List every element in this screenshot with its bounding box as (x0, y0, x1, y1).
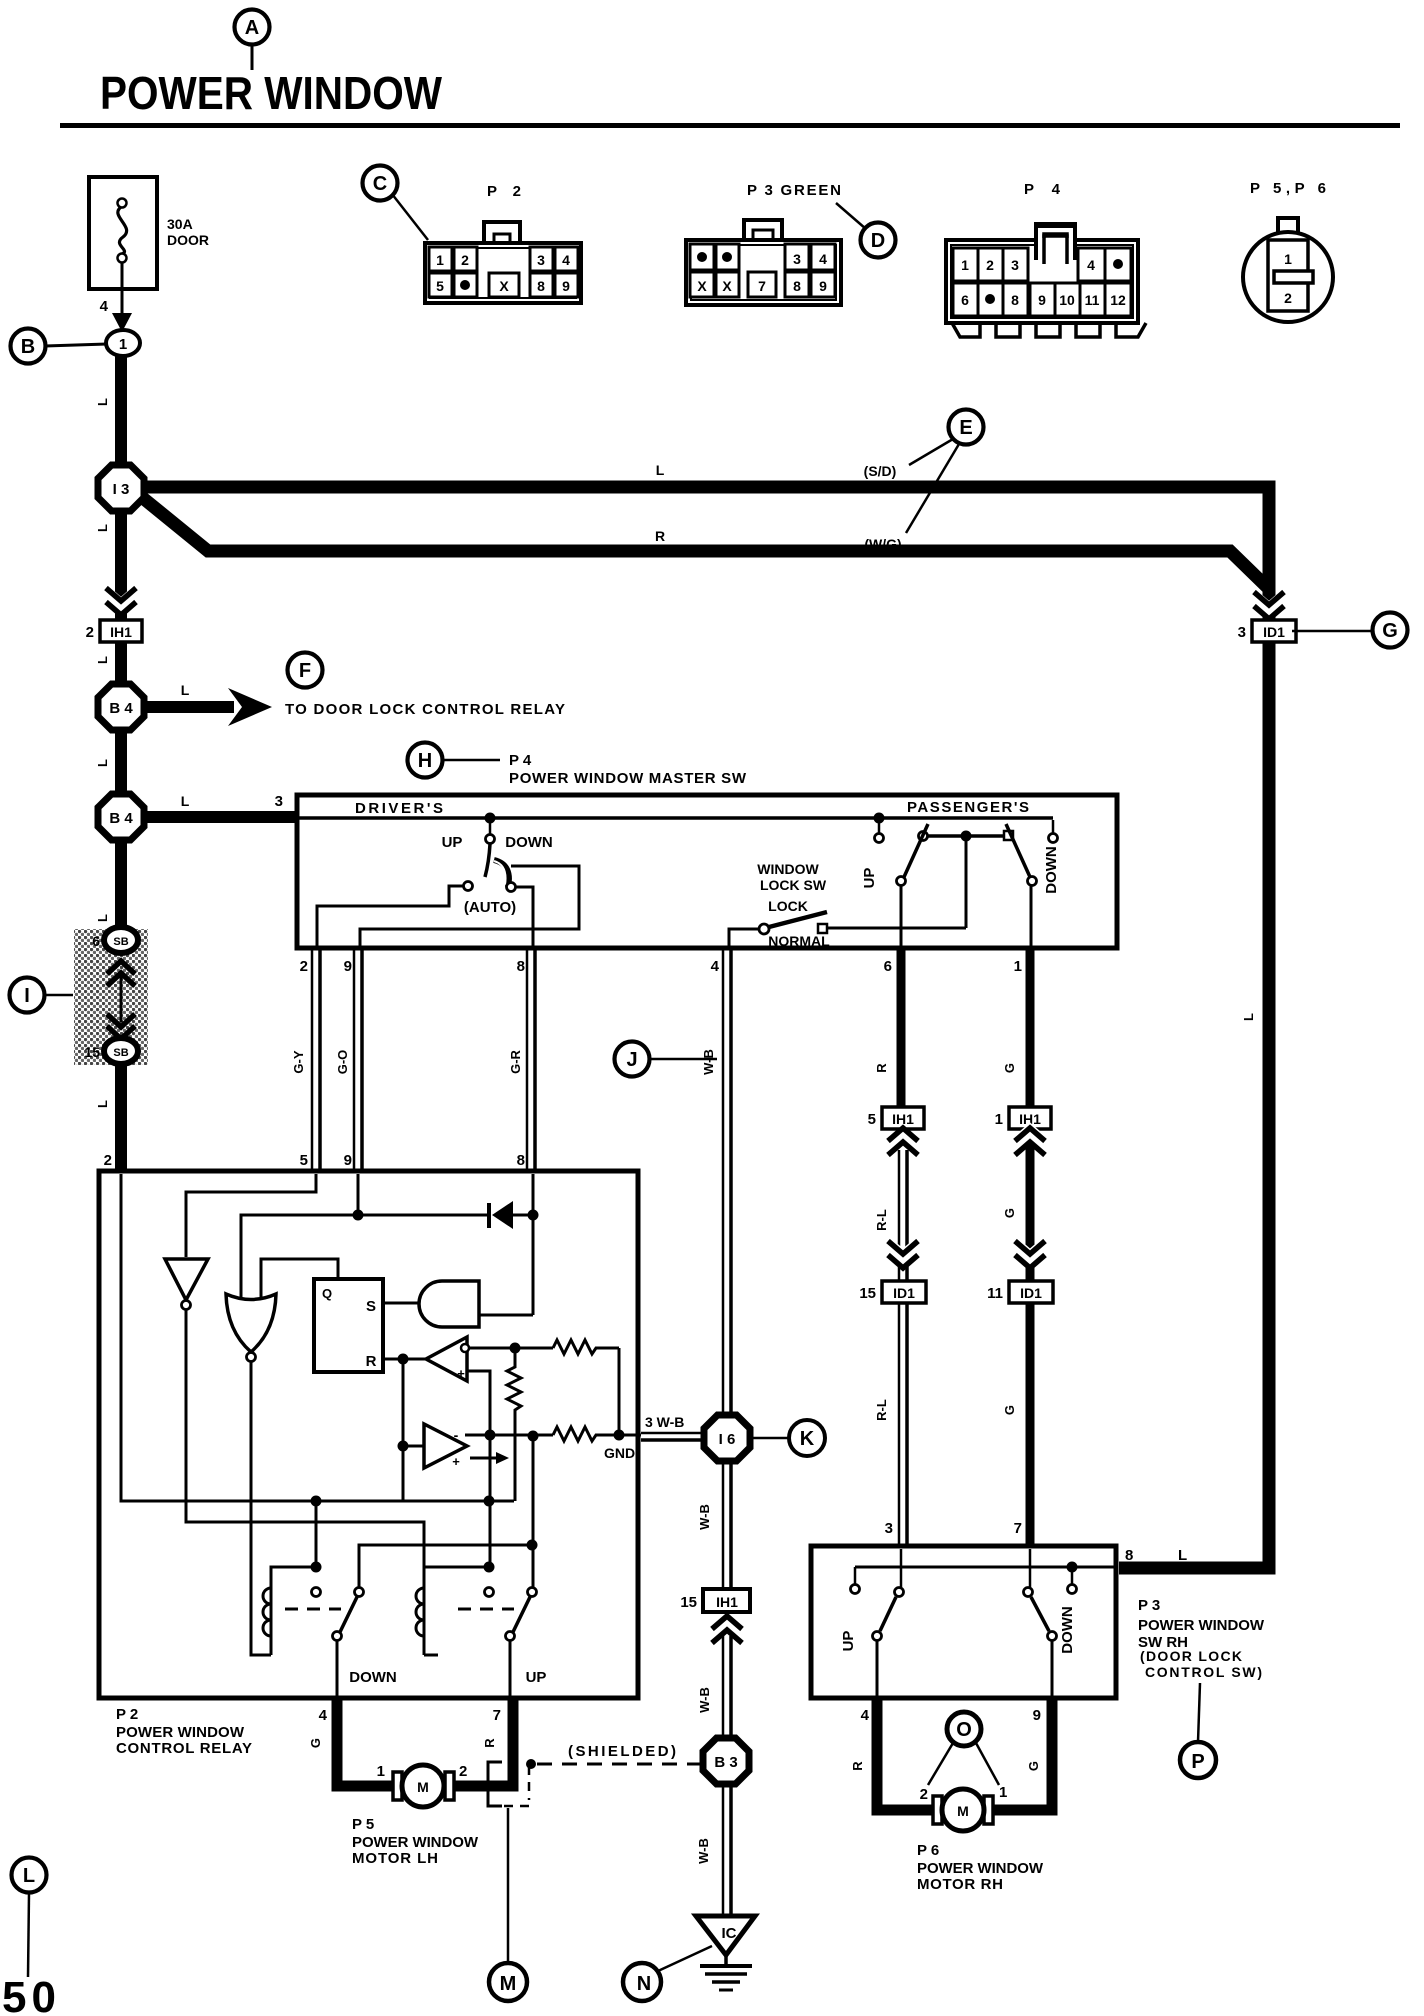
svg-text:12: 12 (1110, 292, 1126, 308)
connector P5 P6 (1243, 180, 1333, 322)
node P callout circle (1180, 1683, 1216, 1778)
node B callout circle (11, 329, 108, 364)
svg-text:L: L (95, 1100, 110, 1108)
svg-text:DOOR: DOOR (167, 232, 209, 248)
svg-text:L: L (95, 656, 110, 664)
svg-text:R: R (850, 1761, 865, 1771)
relay pin labels top (104, 1152, 525, 1169)
connector 3 ID1 on right wire (1238, 620, 1296, 642)
junction B 3 octagon (703, 1738, 749, 1784)
RH switch label (1138, 1597, 1265, 1680)
svg-text:G: G (308, 1738, 323, 1748)
svg-text:4: 4 (100, 298, 109, 315)
power window control relay box (99, 1171, 638, 1698)
svg-text:J: J (626, 1049, 637, 1071)
svg-text:1: 1 (1014, 958, 1022, 975)
wire FF S to AND gate (383, 1302, 430, 1305)
svg-text:IH1: IH1 (716, 1594, 738, 1610)
chevron up below 1 IH1 (1002, 1128, 1045, 1218)
connector 5 IH1 (868, 1107, 924, 1129)
RH switch internal rail (851, 1562, 1115, 1594)
svg-text:1: 1 (436, 252, 444, 268)
svg-text:1: 1 (961, 257, 969, 273)
fuse 30A DOOR (89, 177, 209, 289)
svg-text:7: 7 (493, 1707, 501, 1724)
svg-text:W-B: W-B (696, 1838, 711, 1864)
svg-text:K: K (800, 1428, 815, 1450)
chevron arrow down on right L wire (1254, 592, 1284, 619)
svg-text:POWER WINDOW: POWER WINDOW (100, 67, 443, 119)
svg-text:3: 3 (1238, 624, 1246, 641)
svg-text:5: 5 (300, 1152, 308, 1169)
wire RH pin7 stub to DOWN contact (1029, 1549, 1032, 1587)
node L callout circle page ref (12, 1858, 47, 1978)
svg-text:L: L (1178, 1547, 1187, 1564)
wire color tick L labels on left wire (95, 398, 110, 1108)
svg-text:R: R (874, 1063, 889, 1073)
svg-text:M: M (417, 1779, 429, 1795)
AND gate (419, 1281, 479, 1327)
svg-text:DOWN: DOWN (1043, 846, 1060, 894)
svg-text:IH1: IH1 (110, 624, 132, 640)
svg-text:8: 8 (1125, 1547, 1133, 1564)
svg-text:I: I (24, 985, 30, 1007)
svg-text:L: L (95, 914, 110, 922)
svg-text:(S/D): (S/D) (864, 463, 897, 479)
svg-text:(AUTO): (AUTO) (464, 899, 516, 916)
svg-text:TO DOOR LOCK CONTROL RELAY: TO DOOR LOCK CONTROL RELAY (285, 701, 565, 718)
NOR gate (226, 1294, 276, 1362)
svg-text:1: 1 (377, 1763, 385, 1780)
svg-text:X: X (722, 278, 732, 294)
SB junction block shaded (74, 927, 148, 1065)
wire passenger center to lock switch (965, 841, 968, 928)
wire relay pin8 vertical (532, 1174, 535, 1315)
power window master switch box (297, 795, 1117, 948)
svg-text:L: L (181, 793, 190, 809)
svg-text:G: G (1002, 1405, 1017, 1415)
wire R pin6 to 5 IH1 (874, 950, 901, 1107)
svg-text:3: 3 (1011, 257, 1019, 273)
relay lever 1 (333, 1588, 364, 1641)
relay coil 1 (263, 1567, 311, 1655)
svg-text:8: 8 (517, 1152, 525, 1169)
wire fuse to node 1 with arrow (100, 263, 132, 332)
node J callout circle (615, 1042, 718, 1077)
wire driver UP contact to pin 2 (317, 886, 463, 946)
wire G pin1 to 1 IH1 (1002, 950, 1030, 1107)
window lock switch (729, 861, 966, 949)
svg-text:H: H (418, 750, 432, 772)
wire RH levers to pins (877, 1641, 1052, 1698)
svg-text:CONTROL RELAY: CONTROL RELAY (116, 1740, 252, 1757)
svg-text:P 4: P 4 (1024, 181, 1061, 198)
svg-text:N: N (637, 1973, 651, 1995)
connector 15 ID1 (859, 1281, 926, 1303)
svg-text:L: L (23, 1865, 35, 1887)
node E callout circle (906, 410, 984, 534)
connector 15 IH1 (680, 1589, 750, 1612)
relay pin 4 label (308, 1707, 328, 1748)
svg-text:UP: UP (526, 1669, 547, 1686)
svg-text:P 5: P 5 (352, 1816, 374, 1833)
relay lever 2 (506, 1588, 537, 1641)
svg-text:DOWN: DOWN (505, 834, 553, 851)
svg-text:9: 9 (819, 278, 827, 294)
svg-text:MOTOR LH: MOTOR LH (352, 1850, 438, 1867)
svg-text:W-B: W-B (697, 1687, 712, 1713)
svg-text:2: 2 (300, 958, 308, 975)
svg-text:UP: UP (442, 834, 463, 851)
svg-text:I 6: I 6 (719, 1431, 736, 1448)
svg-text:P 4: P 4 (509, 752, 532, 769)
wire lever1 to pin 4 (336, 1641, 339, 1698)
svg-text:7: 7 (758, 278, 766, 294)
relay pin 7 label (482, 1707, 501, 1748)
svg-text:9: 9 (1038, 292, 1046, 308)
svg-text:P 3 GREEN: P 3 GREEN (747, 182, 841, 199)
wire relay pin9 to diode line (357, 1174, 360, 1215)
svg-text:POWER WINDOW: POWER WINDOW (917, 1860, 1044, 1877)
svg-text:DOWN: DOWN (1059, 1606, 1076, 1654)
svg-text:MOTOR RH: MOTOR RH (917, 1876, 1003, 1893)
svg-text:3: 3 (537, 252, 545, 268)
svg-text:8: 8 (793, 278, 801, 294)
svg-text:G-R: G-R (508, 1049, 523, 1073)
svg-text:P 6: P 6 (917, 1842, 939, 1859)
svg-text:4: 4 (562, 252, 570, 268)
svg-text:4: 4 (819, 251, 827, 267)
node A callout circle (235, 10, 270, 71)
motor RH label (917, 1842, 1044, 1893)
svg-text:1: 1 (995, 1111, 1003, 1128)
motor RH (920, 1784, 1008, 1831)
svg-text:POWER WINDOW: POWER WINDOW (1138, 1617, 1265, 1634)
svg-text:+: + (452, 1454, 460, 1469)
svg-text:2: 2 (1284, 290, 1292, 306)
wire comparator1 top input to R1 (469, 1347, 553, 1350)
diode (489, 1201, 533, 1229)
wire relay pin2 internal (121, 1174, 514, 1501)
node N callout circle (623, 1946, 712, 2001)
svg-text:9: 9 (344, 958, 352, 975)
svg-text:B 4: B 4 (109, 700, 133, 717)
svg-text:G: G (1026, 1761, 1041, 1771)
node H callout circle (408, 743, 747, 788)
svg-text:G: G (1002, 1208, 1017, 1218)
driver switch (442, 813, 553, 917)
svg-text:UP: UP (861, 868, 878, 889)
svg-text:5: 5 (436, 278, 444, 294)
svg-text:7: 7 (1014, 1520, 1022, 1537)
svg-text:PASSENGER'S: PASSENGER'S (907, 799, 1029, 816)
IC ground triangle (696, 1916, 755, 1955)
svg-text:POWER WINDOW: POWER WINDOW (352, 1834, 479, 1851)
connector P3 GREEN (686, 182, 841, 305)
dashed link coil1 lever1 (285, 1608, 341, 1611)
master switch pin numbers (300, 958, 1022, 975)
svg-text:IC: IC (722, 1925, 737, 1942)
svg-text:2: 2 (459, 1763, 467, 1780)
svg-text:3: 3 (885, 1520, 893, 1537)
svg-text:Q: Q (322, 1286, 332, 1301)
svg-text:ID1: ID1 (1020, 1285, 1042, 1301)
svg-text:R: R (366, 1353, 377, 1370)
comparator 2 (424, 1424, 509, 1469)
svg-text:UP: UP (840, 1631, 857, 1652)
resistor R2 vertical (507, 1353, 521, 1501)
flip-flop box (314, 1279, 383, 1372)
svg-text:8: 8 (517, 958, 525, 975)
connector 11 ID1 (987, 1281, 1053, 1303)
main left power wire (115, 356, 127, 928)
svg-text:F: F (299, 660, 311, 682)
motor LH label (352, 1816, 479, 1867)
svg-text:W-B: W-B (697, 1504, 712, 1530)
junction I 3 octagon (98, 465, 144, 511)
junction I 6 octagon (704, 1415, 750, 1461)
wire NOR right input from FF Q (261, 1259, 338, 1298)
svg-text:L: L (181, 682, 190, 698)
connector P2 (425, 183, 581, 303)
svg-text:P 3: P 3 (1138, 1597, 1160, 1614)
svg-text:-: - (454, 1427, 459, 1443)
svg-text:O: O (956, 1719, 972, 1741)
wire R-L pair IH1 to ID1 (874, 1150, 907, 1281)
wire driver DOWN contact to pin 8 (516, 887, 533, 946)
wire FF R to comparator1 (383, 1358, 428, 1361)
svg-text:G-O: G-O (335, 1050, 350, 1075)
svg-text:M: M (500, 1973, 517, 1995)
chevron up below 5 IH1 (888, 1128, 918, 1155)
wire W-B pair B3 to IC (696, 1783, 731, 1918)
svg-text:P: P (1191, 1751, 1204, 1773)
svg-text:B 4: B 4 (109, 810, 133, 827)
relay contact 2 fixed (485, 1588, 494, 1597)
svg-text:A: A (245, 17, 259, 39)
comparator 1 (426, 1337, 469, 1381)
RH DOWN switch (1024, 1588, 1077, 1654)
wire R1 to GND line (618, 1348, 621, 1435)
svg-text:GND: GND (604, 1445, 635, 1461)
node K callout circle (752, 1420, 825, 1456)
relay contact 1 fixed (312, 1588, 321, 1597)
svg-text:4: 4 (1087, 257, 1095, 273)
wire G-O pair pin9 to relay pin9 (335, 950, 362, 1171)
wire relay pin5 to inverter (186, 1174, 316, 1257)
svg-text:R-L: R-L (874, 1399, 889, 1421)
svg-text:R-L: R-L (874, 1209, 889, 1231)
wire thick relay pin4 to motor LH (337, 1698, 397, 1786)
wire NOR output to coil1 (251, 1362, 271, 1655)
wire passenger DOWN to pin 1 (1030, 886, 1033, 946)
wire RH pin3 stub to UP contact (900, 1549, 903, 1587)
wire driver auto hook to pin 9 (360, 866, 579, 946)
svg-text:B 3: B 3 (714, 1754, 737, 1771)
wire master internal rail (299, 816, 1053, 820)
connector 1 IH1 (995, 1107, 1051, 1281)
svg-text:6: 6 (92, 933, 100, 949)
svg-text:R: R (482, 1738, 497, 1748)
dashed link coil2 lever2 (458, 1608, 514, 1611)
svg-text:LOCK SW: LOCK SW (760, 877, 827, 893)
svg-text:+: + (457, 1366, 465, 1381)
relay name label (116, 1706, 252, 1757)
resistor R1 (553, 1340, 619, 1354)
node O callout circle (928, 1712, 999, 1785)
wire contact feeds (311, 1501, 495, 1573)
wire G-R pair pin8 to relay pin8 (508, 950, 535, 1171)
svg-text:M: M (957, 1803, 969, 1819)
chevron down above 11 ID1 (1015, 1241, 1045, 1268)
arrow wire to door lock control relay (144, 682, 565, 726)
svg-text:POWER WINDOW: POWER WINDOW (116, 1724, 245, 1741)
svg-text:2: 2 (986, 257, 994, 273)
node C callout circle (363, 166, 429, 241)
svg-text:G-Y: G-Y (291, 1050, 306, 1073)
svg-text:SB: SB (113, 1047, 128, 1059)
svg-text:15: 15 (680, 1594, 697, 1611)
wire B4 to master switch pin 3 (144, 793, 297, 817)
node 1 oval (106, 330, 140, 356)
svg-text:15: 15 (84, 1044, 100, 1060)
node F callout circle (288, 653, 323, 688)
svg-text:I 3: I 3 (113, 481, 130, 498)
svg-text:C: C (373, 173, 387, 195)
svg-text:2: 2 (104, 1152, 112, 1169)
svg-text:CONTROL SW): CONTROL SW) (1145, 1664, 1262, 1680)
svg-text:8: 8 (537, 278, 545, 294)
wire W-B pair I6 to 15 IH1 (697, 1460, 731, 1589)
svg-text:L: L (95, 759, 110, 767)
wire R line down (402, 1359, 405, 1501)
wire thick L into RH pin 8 (1125, 1547, 1187, 1564)
passenger switch (861, 813, 1060, 894)
svg-text:X: X (697, 278, 707, 294)
wire R from I3 diagonal to right vertical (138, 494, 1269, 589)
connector 2 IH1 on left wire (86, 620, 142, 642)
svg-text:9: 9 (344, 1152, 352, 1169)
relay DOWN UP labels (349, 1669, 546, 1686)
wire thick motor RH to RH pin9 (989, 1698, 1052, 1810)
svg-text:4: 4 (319, 1707, 328, 1724)
svg-text:3 W-B: 3 W-B (645, 1414, 684, 1430)
svg-text:(SHIELDED): (SHIELDED) (568, 1743, 676, 1760)
svg-text:SB: SB (113, 936, 128, 948)
wire L from I3 to right (146, 487, 1269, 1568)
svg-text:11: 11 (987, 1285, 1003, 1302)
svg-text:X: X (499, 278, 509, 294)
junction B 4 octagon (to master sw) (98, 794, 144, 840)
svg-text:3: 3 (275, 793, 283, 810)
node G callout circle (1292, 613, 1408, 648)
chevron down above 15 ID1 (888, 1241, 918, 1268)
svg-text:15: 15 (859, 1285, 876, 1302)
svg-text:D: D (871, 230, 885, 252)
svg-text:1: 1 (119, 336, 127, 353)
svg-text:POWER WINDOW MASTER SW: POWER WINDOW MASTER SW (509, 770, 747, 787)
motor LH (377, 1763, 468, 1807)
node M callout circle (489, 1808, 527, 2001)
RH pin labels (850, 1707, 1041, 1771)
svg-text:G: G (1002, 1063, 1017, 1073)
wire thick RH pin4 to motor RH (877, 1698, 937, 1810)
svg-text:11: 11 (1085, 292, 1100, 308)
wire GND pair exit to I6 (641, 1414, 705, 1440)
svg-text:L: L (1241, 1013, 1256, 1021)
svg-text:R: R (655, 528, 665, 544)
wire AND output (479, 1314, 533, 1317)
svg-text:1: 1 (1284, 251, 1292, 267)
svg-text:6: 6 (884, 958, 892, 975)
wire comparator2 input from R line (404, 1445, 424, 1448)
svg-text:DOWN: DOWN (349, 1669, 397, 1686)
svg-text:1: 1 (999, 1784, 1007, 1801)
svg-text:2: 2 (461, 252, 469, 268)
node I callout circle (10, 978, 74, 1013)
wire pin8 node down to rail3 (532, 1436, 535, 1588)
svg-text:(W/G): (W/G) (864, 536, 901, 552)
svg-text:LOCK: LOCK (768, 898, 808, 914)
wire diode line (241, 1215, 489, 1297)
junction B 4 octagon (to door lock) (98, 684, 144, 730)
relay internal rail dots (311, 1496, 495, 1507)
wire G-Y pair pin2 to relay pin5 (291, 950, 320, 1171)
wire G ID1 to RH switch pin7 (1002, 1303, 1030, 1546)
svg-text:9: 9 (562, 278, 570, 294)
wire lever2 to pin 7 (509, 1641, 512, 1698)
svg-text:6: 6 (961, 292, 969, 308)
wire W-B pair pin4 to I6 (701, 950, 731, 1416)
svg-text:3: 3 (793, 251, 801, 267)
wire thick motor LH to relay pin7 (451, 1698, 513, 1786)
svg-text:G: G (1382, 620, 1398, 642)
wire R-L pair ID1 to RH switch pin3 (874, 1303, 907, 1546)
svg-text:9: 9 (1033, 1707, 1041, 1724)
svg-text:WINDOW: WINDOW (757, 861, 819, 877)
svg-text:ID1: ID1 (893, 1285, 915, 1301)
svg-text:L: L (95, 398, 110, 406)
svg-text:L: L (656, 462, 665, 478)
power window switch RH box (811, 1546, 1116, 1698)
RH UP switch (840, 1588, 904, 1652)
ground symbol (700, 1955, 752, 1990)
svg-text:P 2: P 2 (116, 1706, 138, 1723)
chevron arrow down on left wire (106, 588, 136, 615)
inverter gate (165, 1259, 208, 1310)
svg-text:E: E (959, 417, 972, 439)
svg-text:S: S (366, 1298, 376, 1315)
svg-text:B: B (21, 336, 35, 358)
svg-text:L: L (95, 524, 110, 532)
svg-text:W-B: W-B (701, 1049, 716, 1075)
wire inverter output to coil2 (186, 1310, 424, 1567)
wire W-B pair IH1 to B3 (697, 1636, 731, 1740)
svg-text:4: 4 (711, 958, 720, 975)
svg-text:4: 4 (861, 1707, 870, 1724)
shield bracket (488, 1743, 701, 1806)
svg-text:5: 5 (868, 1111, 876, 1128)
wire passenger UP to pin 6 (900, 886, 903, 946)
wire rail3 to lever1 (359, 1545, 532, 1588)
svg-text:NORMAL: NORMAL (768, 933, 830, 949)
wire GND line with resistor R3 (465, 1427, 641, 1461)
svg-text:(DOOR LOCK: (DOOR LOCK (1140, 1648, 1242, 1664)
svg-text:10: 10 (1059, 292, 1075, 308)
chevron up below 15 IH1 (712, 1616, 742, 1643)
connector P4 (946, 181, 1146, 337)
wire comparator1 plus input down (467, 1371, 490, 1567)
